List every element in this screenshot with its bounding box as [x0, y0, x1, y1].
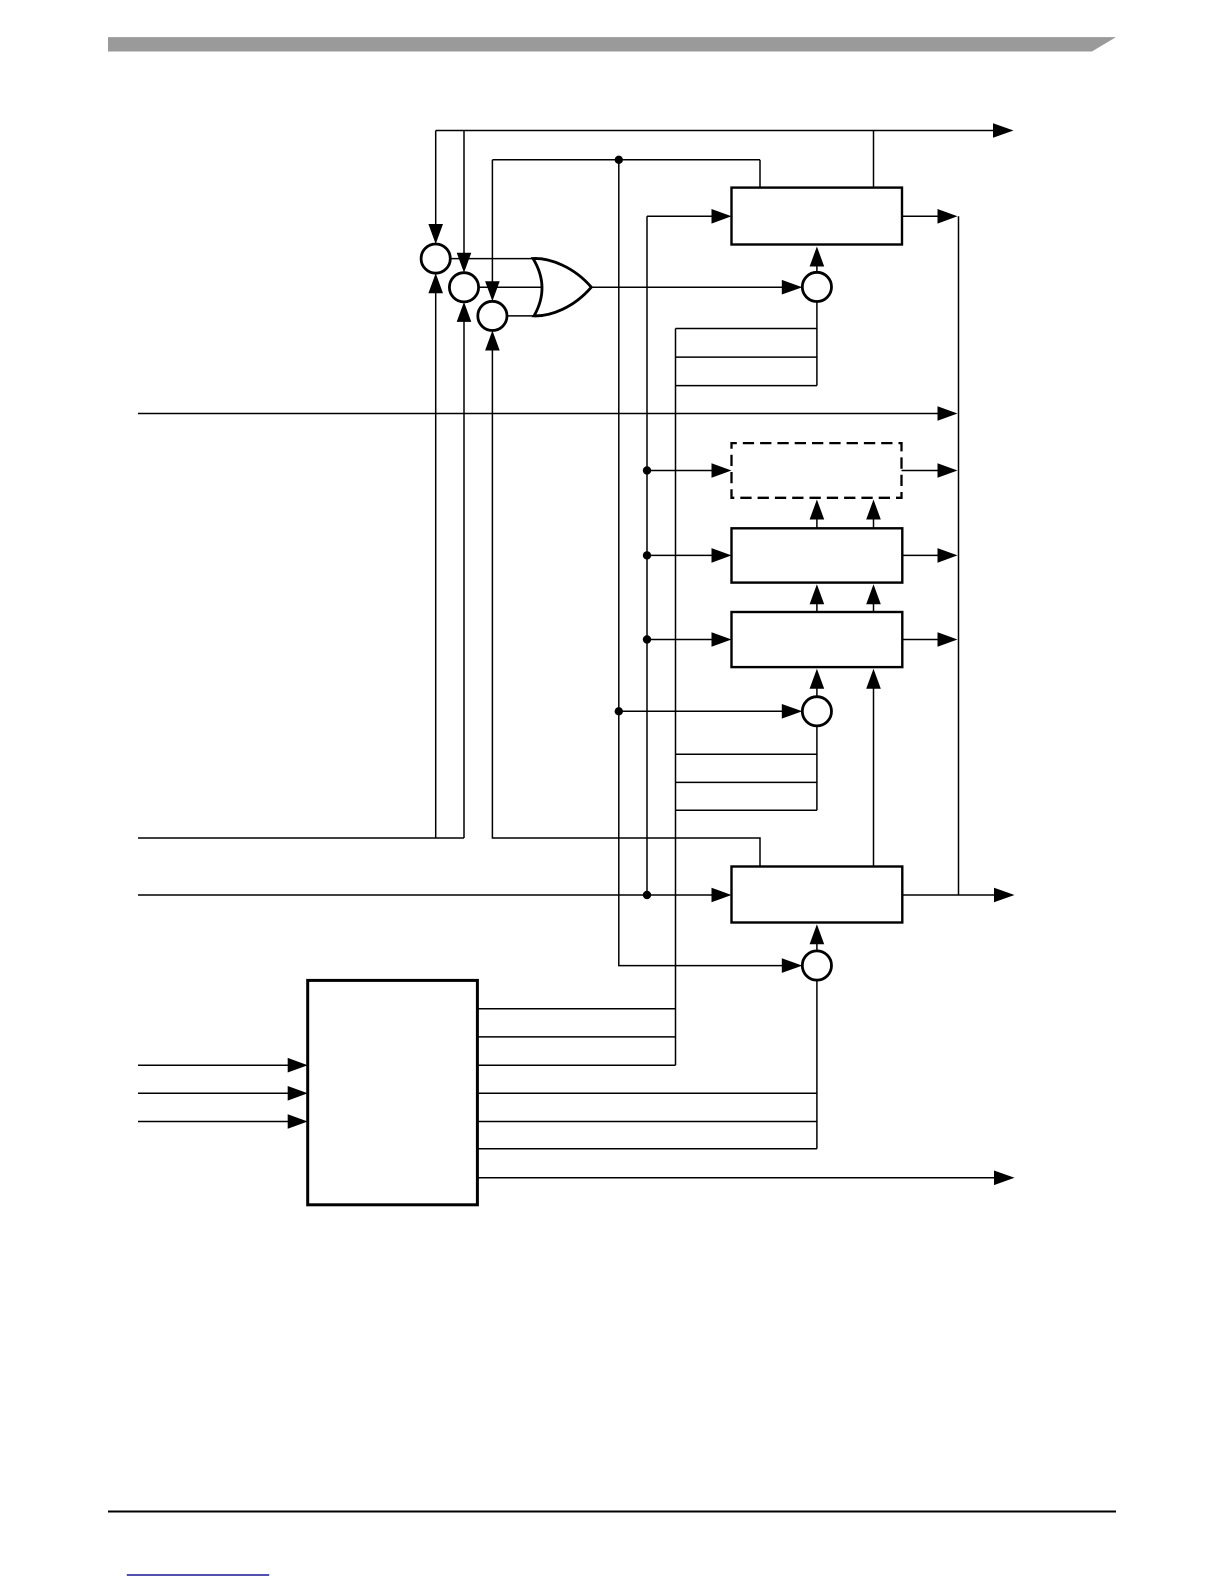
wire REG4 input [647, 639, 715, 641]
wire long line y=413.5 [138, 413, 940, 415]
wire adder A2 input [619, 710, 783, 712]
wire REG3 to REG2 right [873, 512, 875, 528]
table T2 row line 2 [676, 781, 817, 783]
arrowhead U1 input 1 [288, 1058, 308, 1073]
arrowhead REG5 input [712, 888, 732, 903]
arrowhead REG3 output [938, 548, 958, 563]
arrowhead A1 to REG1 [810, 247, 825, 267]
wire U1 output 3 [477, 1064, 675, 1066]
wire stub into REG1 top left [759, 160, 761, 188]
wire gate G1 input 2 [479, 286, 544, 288]
junction dot line y=160 [615, 156, 623, 164]
wire gate G1 input 3 [507, 315, 536, 317]
arrowhead REG3 to REG2 right [866, 500, 881, 520]
wire top bus y=130.5 [436, 130, 994, 132]
wire gate G1 input 1 [450, 258, 535, 260]
register REG5 [732, 867, 903, 923]
wire REG4 output [902, 639, 940, 641]
node X2 [449, 273, 478, 302]
node X1 [421, 244, 450, 273]
wire REG3 output [902, 554, 940, 556]
junction dot REG5 input [643, 891, 651, 899]
arrowhead long line y=413.5 [938, 406, 958, 421]
arrowhead A3 to REG5 [810, 924, 825, 944]
arrowhead top bus output [993, 123, 1014, 138]
wire U1 output 7 [477, 1177, 995, 1179]
wire adder A3 down vertical [816, 980, 818, 1149]
wire long line y=895 [138, 894, 715, 896]
wire U1 output 5 [477, 1121, 817, 1123]
wire adder A1 to REG1 [816, 261, 818, 272]
table T1 row line 3 [676, 385, 817, 387]
wire U1 input 3 [138, 1121, 289, 1123]
arrowhead REG3 to REG2 left [810, 500, 825, 520]
arrowhead REG2 output [938, 463, 958, 478]
wire adder A3 to REG5 [816, 939, 818, 951]
arrowhead into adder A3 [782, 958, 803, 973]
wire vertical into node X2 top [463, 131, 465, 258]
wire REG4 to REG3 left [816, 597, 818, 612]
wire vertical into node X3 top [491, 160, 493, 286]
wire REG1 output [902, 215, 940, 217]
arrowhead REG4 to REG3 right [866, 584, 881, 604]
node X3 [478, 301, 507, 330]
footer rule [108, 1511, 1116, 1513]
wire REG4 to REG3 right [873, 597, 875, 612]
register REG2 (dashed buffer) [732, 443, 902, 498]
arrowhead U1 input 2 [288, 1086, 308, 1101]
register REG4 [732, 612, 903, 667]
arrowhead node X2 bottom [457, 302, 472, 322]
table T1 row line 1 [676, 328, 817, 330]
arrowhead REG3 input [712, 548, 732, 563]
arrowhead G1 to A1 [782, 280, 803, 295]
wire U1 output 4 [477, 1092, 817, 1094]
adder A1 [802, 272, 831, 301]
arrowhead U1 output 7 [994, 1171, 1015, 1186]
arrowhead into node X2 [457, 253, 472, 273]
wire vertical x=619 with corner to adder A3 [619, 160, 783, 966]
table T2 row line 1 [676, 753, 817, 755]
wire REG2 input [647, 470, 715, 472]
footer link underline [127, 1574, 269, 1576]
wire node X1 bottom vertical [435, 289, 437, 838]
wire vertical bus x=647 [646, 216, 648, 895]
arrowhead node X3 bottom [485, 331, 500, 351]
wire adder A2 to table T2 [816, 726, 818, 810]
junction dot REG4 input [643, 635, 651, 643]
arrowhead REG2 input [712, 463, 732, 478]
wire y=160 with junction [492, 159, 760, 161]
wire gate G1 output [591, 286, 783, 288]
wire vertical into node X1 top [435, 131, 437, 230]
block U1 [308, 980, 478, 1204]
wire REG5 output [902, 894, 995, 896]
wire node X2 bottom vertical [463, 317, 465, 838]
wire long line y=838 left [138, 837, 464, 839]
arrowhead node X1 bottom [428, 273, 443, 293]
wire node X3 bottom to REG5 top [492, 346, 760, 867]
arrowhead REG1 input [712, 209, 732, 224]
arrowhead into node X1 [428, 224, 443, 244]
wire REG3 to REG2 left [816, 512, 818, 528]
header bar [108, 37, 1116, 51]
junction dot adder A2 input [615, 707, 623, 715]
wire U1 input 2 [138, 1092, 289, 1094]
wire REG1 input [647, 215, 715, 217]
arrowhead REG5 output [994, 888, 1015, 903]
adder A2 [802, 697, 831, 726]
arrowhead REG5 to REG4 [866, 669, 881, 689]
wire U1 output 2 [477, 1036, 675, 1038]
arrowhead into adder A2 [782, 704, 803, 719]
wire vertical bus x=675.5 [675, 329, 677, 1066]
adder A3 [802, 951, 831, 980]
wire adder A1 to table T1 [816, 302, 818, 386]
arrowhead REG4 to REG3 left [810, 584, 825, 604]
junction dot REG2 input [643, 466, 651, 474]
register REG1 [732, 188, 903, 245]
wire U1 input 1 [138, 1064, 289, 1066]
wire U1 output 1 [477, 1008, 675, 1010]
wire U1 output 6 [477, 1148, 817, 1150]
arrowhead into node X3 [485, 281, 500, 301]
junction dot REG3 input [643, 551, 651, 559]
arrowhead REG1 output [938, 209, 958, 224]
wire REG3 input [647, 554, 715, 556]
wire stub into REG1 top right [873, 131, 875, 188]
wire REG2 output [902, 470, 941, 472]
arrowhead U1 input 3 [288, 1114, 308, 1129]
wire adder A2 to REG4 [816, 681, 818, 697]
arrowhead A2 to REG4 [810, 669, 825, 689]
arrowhead REG4 input [712, 632, 732, 647]
register REG3 [732, 528, 903, 582]
or-gate G1 [533, 258, 591, 315]
arrowhead REG4 output [938, 632, 958, 647]
table T1 row line 2 [676, 356, 817, 358]
wire REG5 top to REG4 bottom [873, 681, 875, 867]
wire vertical bus x=958.5 [958, 216, 960, 895]
table T2 row line 3 [676, 809, 817, 811]
